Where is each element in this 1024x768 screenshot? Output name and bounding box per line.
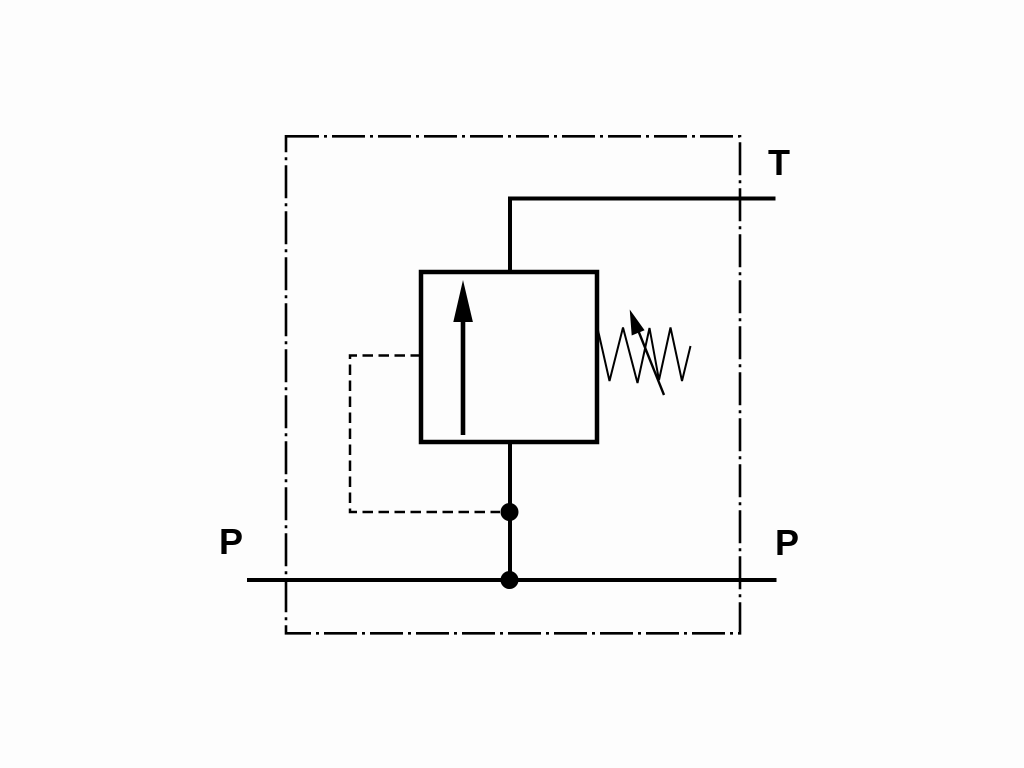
junction node (pilot tap): [501, 503, 519, 521]
svg-text:P: P: [775, 522, 799, 563]
svg-text:T: T: [768, 142, 790, 183]
spring adjustment arrow shaft: [634, 320, 664, 395]
valve body U1: [421, 272, 597, 442]
enclosure boundary (dash-dot subplate frame): [286, 136, 740, 633]
flow arrow head: [453, 280, 473, 322]
flow arrow shaft: [461, 310, 466, 435]
pilot line (dashed): [350, 356, 500, 513]
wire valve inlet to P line: [508, 442, 512, 580]
wire P line: [247, 578, 777, 582]
spring adjustment arrow head: [630, 310, 645, 336]
junction node (P line tap): [501, 571, 519, 589]
spring (adjustable): [598, 328, 691, 384]
svg-text:P: P: [219, 521, 243, 562]
wire valve outlet to T line: [508, 197, 512, 273]
wire T line: [508, 197, 776, 201]
